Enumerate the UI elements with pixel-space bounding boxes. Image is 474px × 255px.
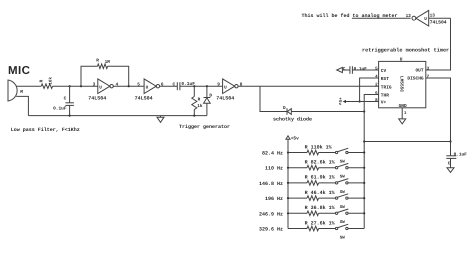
svg-text:3: 3 [93, 83, 96, 88]
svg-text:R 36.8k 1%: R 36.8k 1% [305, 205, 335, 211]
svg-text:R: R [40, 79, 45, 82]
svg-text:9: 9 [217, 83, 220, 88]
svg-text:74LS04: 74LS04 [430, 19, 447, 25]
svg-text:5: 5 [137, 83, 140, 88]
svg-text:0.1uF: 0.1uF [454, 153, 468, 158]
svg-text:0.1uF: 0.1uF [53, 105, 67, 111]
svg-text:C: C [172, 81, 175, 87]
svg-text:TRIG: TRIG [381, 84, 392, 90]
svg-text:246.9 Hz: 246.9 Hz [259, 211, 283, 217]
svg-text:R 46.4k 1%: R 46.4k 1% [305, 190, 335, 196]
svg-text:D: D [283, 106, 286, 111]
svg-text:Trigger generator: Trigger generator [179, 124, 230, 130]
svg-text:GND: GND [399, 103, 407, 109]
svg-text:SW: SW [340, 175, 346, 180]
svg-text:+5v: +5v [337, 97, 342, 105]
svg-text:SW: SW [340, 159, 346, 164]
svg-text:U: U [146, 85, 149, 90]
svg-text:C: C [343, 67, 346, 72]
svg-text:SW: SW [340, 235, 346, 240]
svg-text:MIC: MIC [8, 65, 30, 77]
svg-text:retriggerable monoshot timer: retriggerable monoshot timer [362, 48, 449, 54]
svg-text:RST: RST [381, 76, 389, 82]
svg-text:M: M [20, 90, 23, 95]
svg-text:R 82.6k 1%: R 82.6k 1% [305, 160, 335, 166]
svg-text:U: U [424, 17, 427, 22]
svg-text:0.1uF: 0.1uF [354, 67, 368, 72]
svg-text:V+: V+ [381, 101, 387, 106]
svg-text:146.8 Hz: 146.8 Hz [259, 181, 283, 187]
svg-text:R 27.6k 1%: R 27.6k 1% [305, 220, 335, 226]
svg-text:1k: 1k [197, 103, 203, 109]
svg-text:SW: SW [340, 220, 346, 225]
svg-text:U: U [400, 58, 403, 63]
svg-text:schotky diode: schotky diode [273, 117, 312, 123]
svg-text:12: 12 [406, 14, 412, 19]
svg-text:LM555C: LM555C [399, 76, 405, 93]
svg-text:196 Hz: 196 Hz [265, 196, 283, 202]
svg-text:U: U [224, 85, 227, 90]
svg-text:U: U [99, 85, 102, 90]
svg-text:R 61.9k 1%: R 61.9k 1% [305, 175, 335, 181]
svg-text:D: D [209, 94, 212, 99]
svg-text:+5v: +5v [291, 136, 299, 141]
svg-text:R 110k 1%: R 110k 1% [305, 144, 332, 150]
svg-text:110 Hz: 110 Hz [265, 166, 283, 172]
svg-text:R: R [198, 98, 201, 103]
svg-text:R: R [96, 59, 99, 64]
svg-text:74LS04: 74LS04 [135, 96, 153, 102]
svg-text:Low pass Filter, F<1Khz: Low pass Filter, F<1Khz [11, 127, 80, 133]
svg-text:C: C [64, 96, 67, 102]
svg-text:1M: 1M [105, 60, 111, 65]
svg-text:SW: SW [340, 205, 346, 210]
svg-text:CV: CV [381, 68, 387, 74]
svg-text:DISCHG: DISCHG [407, 76, 424, 82]
svg-text:74LS04: 74LS04 [88, 96, 106, 102]
svg-text:82.4 Hz: 82.4 Hz [262, 151, 283, 157]
svg-text:SW: SW [340, 190, 346, 195]
svg-text:C: C [448, 162, 451, 167]
svg-text:6: 6 [161, 83, 164, 88]
svg-text:74LS04: 74LS04 [216, 96, 234, 102]
svg-text:0.1uF: 0.1uF [181, 81, 195, 87]
svg-text:THR: THR [381, 94, 389, 99]
svg-text:OUT: OUT [415, 68, 423, 74]
svg-text:329.6 Hz: 329.6 Hz [259, 227, 283, 233]
